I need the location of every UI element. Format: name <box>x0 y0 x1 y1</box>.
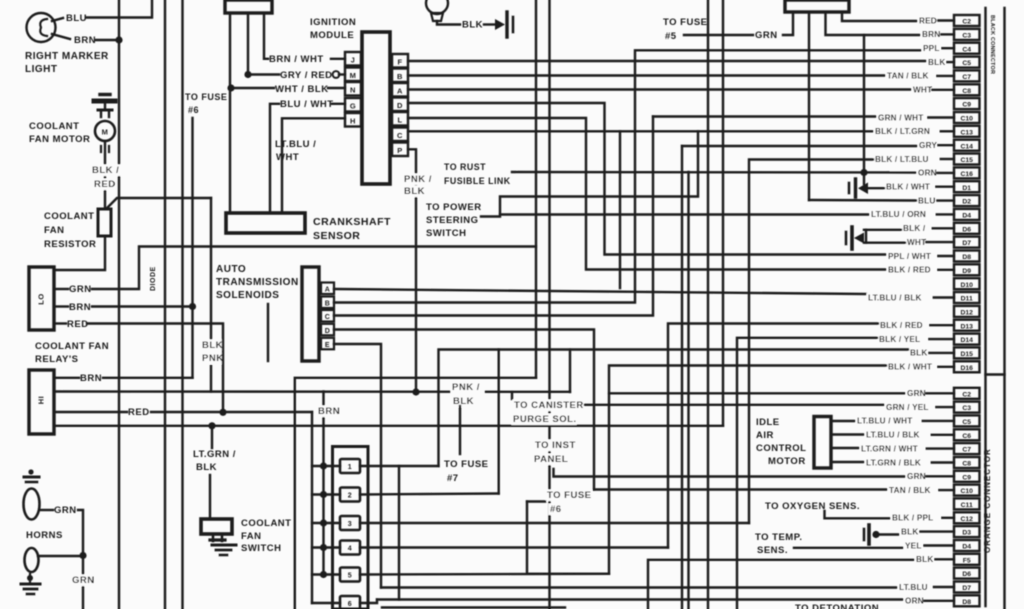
wire horn1 to junction <box>78 510 83 556</box>
pin 6 connector <box>340 596 360 609</box>
wire run GRN C2org <box>609 392 905 394</box>
svg-text:CONTROL: CONTROL <box>756 443 806 454</box>
svg-text:LT.BLU / WHT: LT.BLU / WHT <box>857 417 912 426</box>
relay HI box <box>29 370 54 434</box>
wire GRY/RED <box>252 73 279 75</box>
label IDLE AIR CONTROL MOTOR <box>756 417 806 467</box>
wire to fan switch <box>209 475 211 519</box>
svg-text:BLACK CONNECTOR: BLACK CONNECTOR <box>989 15 995 74</box>
svg-text:D16: D16 <box>960 365 973 372</box>
svg-text:COOLANT: COOLANT <box>29 121 79 132</box>
svg-text:D7: D7 <box>962 240 971 247</box>
junction GRY/RED <box>244 71 251 78</box>
wire BRN to fuse6 bus <box>92 305 193 307</box>
svg-text:BLU: BLU <box>918 196 935 205</box>
svg-text:C3: C3 <box>962 33 971 40</box>
label COOLANT FAN MOTOR <box>29 121 90 145</box>
pin P ignition <box>392 143 408 157</box>
pin D solenoid <box>321 324 334 336</box>
svg-text:6: 6 <box>348 601 352 608</box>
svg-text:C2: C2 <box>962 19 971 26</box>
terminal D3 orange connector BLK <box>900 526 980 537</box>
wire LT.GRN/BLK tap <box>211 426 213 448</box>
terminal C7 black connector TAN / BLK <box>886 70 980 81</box>
svg-text:TO FUSE: TO FUSE <box>185 92 227 102</box>
wire pin2 left <box>312 493 340 495</box>
pin L ignition <box>392 112 408 126</box>
svg-text:LT.GRN /: LT.GRN / <box>193 449 236 460</box>
pin B solenoid <box>321 297 334 309</box>
junction RED riser <box>219 409 226 416</box>
svg-text:PNK /: PNK / <box>452 382 480 393</box>
wire run L to D9 <box>408 118 887 270</box>
wire fusible link run <box>512 171 917 174</box>
terminal D7 orange connector LT.BLU <box>898 582 980 593</box>
svg-text:D13: D13 <box>960 323 973 330</box>
terminal C5 orange connector LT.BLU / WHT <box>856 415 980 426</box>
label TO FUSE #6 <box>185 92 227 115</box>
svg-text:GRY / RED: GRY / RED <box>280 70 333 81</box>
wire run C15 pin3 <box>749 160 873 524</box>
terminal C9 orange connector GRN <box>906 471 980 482</box>
wire stub BRN/WHT <box>264 13 268 59</box>
junction fuse6-BRN <box>189 303 196 310</box>
terminal D12 black connector <box>954 306 980 317</box>
wire to pin G <box>332 103 345 105</box>
terminal C7 orange connector LT.GRN / WHT <box>860 443 980 454</box>
lamp right marker light <box>27 13 71 42</box>
svg-text:F: F <box>397 58 402 67</box>
terminal C14 black connector GRY <box>918 140 980 151</box>
wire run D16 fuse6 <box>527 366 886 574</box>
svg-text:FUSIBLE LINK: FUSIBLE LINK <box>444 176 511 186</box>
junction ORN riser <box>860 169 867 176</box>
pin 5 connector <box>340 568 360 582</box>
label TO FUSE #6 (lower) <box>546 490 592 516</box>
svg-text:RIGHT MARKER: RIGHT MARKER <box>25 51 109 62</box>
svg-text:BLK / RED: BLK / RED <box>880 321 923 330</box>
label TO DETONATION <box>795 603 879 609</box>
terminal D10 black connector <box>954 278 980 289</box>
wire riser x399 <box>398 466 400 600</box>
svg-text:RED: RED <box>919 16 937 25</box>
svg-text:DIODE: DIODE <box>150 266 157 291</box>
pin C solenoid <box>321 310 334 322</box>
relay LO box <box>29 267 54 330</box>
svg-text:MOTOR: MOTOR <box>768 456 806 467</box>
svg-text:AUTO: AUTO <box>216 264 246 275</box>
svg-text:ORN: ORN <box>918 169 937 178</box>
wire run GRY to C14 <box>682 145 917 147</box>
label RED (LO) <box>67 319 89 330</box>
wire stub GRY/RED <box>247 13 249 75</box>
svg-text:G: G <box>350 102 356 111</box>
horn upper <box>24 469 40 519</box>
svg-text:B: B <box>397 72 403 81</box>
wire pin3 right <box>360 522 749 524</box>
svg-text:GRN: GRN <box>69 284 92 295</box>
wire run ORN D8org <box>377 598 903 600</box>
terminal C10 orange connector TAN / BLK <box>888 485 980 496</box>
label HORNS <box>26 530 63 541</box>
svg-text:2: 2 <box>348 493 352 500</box>
svg-text:ORN: ORN <box>905 597 924 606</box>
svg-text:BLU / WHT: BLU / WHT <box>280 99 334 110</box>
wire vertical bus x708 <box>707 0 709 609</box>
svg-text:TO CANISTER: TO CANISTER <box>514 400 584 411</box>
wire vertical bus x182 <box>181 0 183 609</box>
svg-text:D10: D10 <box>960 282 973 289</box>
pin N ignition <box>345 82 361 96</box>
pin A ignition <box>392 83 408 97</box>
wire IAC pin3 <box>831 447 860 449</box>
pin B ignition <box>392 69 408 83</box>
pin 1 connector <box>340 459 360 473</box>
terminal D16 black connector BLK / WHT <box>887 361 980 372</box>
svg-text:TO FUSE: TO FUSE <box>444 459 489 470</box>
svg-text:HORNS: HORNS <box>26 530 63 541</box>
wire pin1 right <box>360 465 439 467</box>
wire ORN riser <box>863 35 865 184</box>
label GRY/RED <box>280 70 333 81</box>
svg-text:BLK / PPL: BLK / PPL <box>892 514 933 523</box>
svg-text:C2: C2 <box>962 391 971 398</box>
terminal D4 orange connector YEL <box>904 540 980 551</box>
svg-text:D7: D7 <box>962 585 971 592</box>
label BRN <box>74 35 96 46</box>
svg-text:WHT / BLK: WHT / BLK <box>275 84 329 95</box>
svg-text:C6: C6 <box>962 433 971 440</box>
svg-text:BLK: BLK <box>453 396 474 407</box>
wire pin3 left <box>312 522 340 524</box>
wire horns down <box>82 556 84 609</box>
wire BLU to top <box>86 0 152 18</box>
wire run GRN/WHT C10 <box>653 115 876 117</box>
wire run A to C8 <box>408 88 912 90</box>
label GRN (horn bus) <box>71 575 95 587</box>
wire run F to C5 <box>408 60 927 62</box>
svg-text:FAN: FAN <box>241 531 262 542</box>
svg-text:PANEL: PANEL <box>534 454 568 465</box>
svg-text:C4: C4 <box>962 46 971 53</box>
label GRN (horn) <box>54 505 77 516</box>
svg-text:C8: C8 <box>962 461 971 468</box>
svg-text:4: 4 <box>348 546 352 553</box>
label AUTO TRANSMISSION SOLENOIDS <box>216 264 299 301</box>
ground fan switch <box>212 545 236 555</box>
junction pin5 <box>320 571 327 578</box>
svg-text:#5: #5 <box>665 31 677 42</box>
terminal D1 black connector BLK / WHT <box>885 181 980 192</box>
svg-text:GRN / WHT: GRN / WHT <box>878 113 923 122</box>
wire sensor BLK <box>437 21 460 25</box>
connector box top-right <box>785 0 849 12</box>
wire pin5 left <box>312 573 340 575</box>
svg-text:C8: C8 <box>962 88 971 95</box>
svg-text:RED: RED <box>128 407 150 418</box>
connector box top-left <box>225 0 272 13</box>
terminal D14 black connector BLK / YEL <box>878 334 980 345</box>
svg-text:BLK / LT.BLU: BLK / LT.BLU <box>875 155 929 164</box>
label TO TEMP. SENS. <box>755 532 802 556</box>
svg-text:F5: F5 <box>963 557 971 564</box>
wire HI row4 long <box>56 425 723 427</box>
svg-text:C7: C7 <box>962 74 971 81</box>
wire riser x620 <box>619 131 621 288</box>
svg-text:D8: D8 <box>962 254 971 261</box>
svg-text:BLK: BLK <box>202 340 223 351</box>
svg-text:TO FUSE: TO FUSE <box>547 490 592 501</box>
svg-text:BLK: BLK <box>462 20 483 31</box>
wire stub RED <box>842 12 917 21</box>
svg-text:C5: C5 <box>962 60 971 67</box>
svg-text:PURGE SOL.: PURGE SOL. <box>513 414 577 425</box>
label ORANGE CONNECTOR <box>983 448 992 553</box>
svg-text:SOLENOIDS: SOLENOIDS <box>216 290 279 301</box>
wire solenoid E <box>334 344 381 588</box>
svg-text:BLK: BLK <box>916 555 933 564</box>
wire pin4 right <box>360 546 668 548</box>
junction marker-BRN <box>115 36 122 43</box>
svg-text:TO DETONATION: TO DETONATION <box>795 603 879 609</box>
junction pin3 <box>320 519 327 526</box>
terminal ring GRY/RED <box>333 71 340 78</box>
wire LO BRN <box>56 305 68 307</box>
svg-text:BLK / YEL: BLK / YEL <box>879 335 920 344</box>
svg-text:A: A <box>325 287 331 294</box>
svg-text:RED: RED <box>94 179 116 190</box>
wire inst panel run <box>554 469 907 477</box>
wire pin H down <box>282 118 345 213</box>
wire resistor top to right <box>107 198 211 208</box>
svg-text:D15: D15 <box>960 351 973 358</box>
pin D ignition <box>392 98 408 112</box>
label BLK PNK <box>201 340 224 365</box>
sensor top center <box>426 0 448 21</box>
pin M ignition <box>345 68 361 82</box>
terminal D13 black connector BLK / RED <box>879 320 980 331</box>
svg-text:D6: D6 <box>962 571 971 578</box>
terminal D4 black connector LT.BLU / ORN <box>870 209 980 220</box>
wire run B to C7 <box>408 74 886 76</box>
pin G ignition <box>345 98 361 112</box>
terminal D2 black connector BLU <box>917 195 980 206</box>
wire pin4 left <box>312 546 340 548</box>
wire motor lead <box>101 141 109 209</box>
wire riser x570 <box>569 350 571 393</box>
svg-text:D: D <box>325 328 331 335</box>
wire HI BRN <box>56 377 79 379</box>
pin 2 connector <box>340 488 360 502</box>
junction PNK/BLK <box>412 388 419 395</box>
wire pin5 right <box>360 573 609 576</box>
wire to pin M <box>339 73 345 75</box>
wire stub BRN <box>826 12 921 35</box>
label LO <box>37 293 46 304</box>
wire solenoid C <box>334 117 653 316</box>
svg-text:C3: C3 <box>962 405 971 412</box>
resistor coolant fan <box>98 209 111 236</box>
svg-text:BLK: BLK <box>404 186 425 197</box>
wire temp sens run <box>794 547 903 549</box>
pin F ignition <box>392 54 408 68</box>
svg-text:IDLE: IDLE <box>756 417 780 428</box>
wire IAC pin2 <box>831 433 864 435</box>
wire vertical bus x536 <box>535 0 537 378</box>
svg-text:BLK / LT.GRN: BLK / LT.GRN <box>875 127 930 136</box>
idle air motor body <box>814 417 831 469</box>
svg-text:BRN: BRN <box>69 302 91 313</box>
svg-text:D14: D14 <box>960 337 973 344</box>
svg-text:M: M <box>102 128 109 137</box>
svg-text:D: D <box>397 101 403 110</box>
label GRN (LO) <box>69 284 92 295</box>
svg-text:PNK /: PNK / <box>404 174 432 185</box>
wire resistor bottom <box>55 236 105 270</box>
svg-text:BLK / RED: BLK / RED <box>888 266 931 275</box>
label IGNITION MODULE <box>310 17 356 41</box>
svg-text:STEERING: STEERING <box>426 215 479 226</box>
terminal C12 orange connector BLK / PPL <box>891 512 980 523</box>
svg-text:WHT: WHT <box>913 86 932 95</box>
wire riser x498 <box>498 350 500 494</box>
terminal C13 black connector BLK / LT.GRN <box>874 126 980 137</box>
wire BRN up to junction <box>103 377 193 379</box>
svg-text:D6: D6 <box>962 226 971 233</box>
wire run C to C13 <box>408 130 874 132</box>
svg-text:C16: C16 <box>960 171 973 178</box>
label LT.BLU/WHT <box>275 139 316 163</box>
svg-text:BLK /: BLK / <box>92 165 119 176</box>
svg-text:B: B <box>325 301 331 308</box>
label BLACK CONNECTOR <box>989 15 995 74</box>
pin C ignition <box>392 128 408 142</box>
wire run LT.BLU D7org <box>381 586 897 588</box>
label HI <box>37 396 46 405</box>
numbered connector body <box>333 447 369 609</box>
svg-text:WHT: WHT <box>907 238 926 247</box>
svg-text:TO TEMP.: TO TEMP. <box>755 532 802 543</box>
svg-text:TAN / BLK: TAN / BLK <box>887 72 929 81</box>
svg-text:LT.BLU: LT.BLU <box>899 583 928 592</box>
wire bus x323 <box>322 392 324 575</box>
coolant fan switch <box>201 519 232 541</box>
wire bottom segment <box>382 606 565 608</box>
junction pin2 <box>320 491 327 498</box>
wire stub N <box>229 13 231 213</box>
svg-text:GRN: GRN <box>907 389 926 398</box>
wire pin P <box>408 149 416 392</box>
wire BRN to bus <box>96 39 119 41</box>
wire run D13 BLK/RED <box>668 324 878 548</box>
ground top sensor <box>495 12 513 37</box>
svg-text:GRN / YEL: GRN / YEL <box>886 403 929 412</box>
svg-text:C5: C5 <box>962 419 971 426</box>
junction pin1 <box>320 462 327 469</box>
label RIGHT MARKER LIGHT <box>25 51 109 75</box>
wire vertical bus x688 <box>687 172 689 609</box>
label TO POWER STEERING SWITCH <box>426 202 482 239</box>
svg-text:C: C <box>325 314 331 321</box>
label BRN (HI) <box>80 373 102 384</box>
terminal D8 black connector PPL / WHT <box>887 251 980 262</box>
wire solenoid D <box>334 330 594 490</box>
wire pin2 right <box>360 494 499 495</box>
label PNK/BLK (P pin) <box>403 174 437 198</box>
wire RED to connector <box>151 411 312 413</box>
label COOLANT FAN SWITCH <box>241 518 291 554</box>
label COOLANT FAN RESISTOR <box>44 211 96 250</box>
label PNK/BLK (P) <box>451 382 485 408</box>
wire GRN to riser <box>92 247 536 290</box>
terminal C2 black connector RED <box>918 15 980 26</box>
svg-text:BLK / WHT: BLK / WHT <box>888 363 932 372</box>
svg-text:3: 3 <box>348 521 352 528</box>
wire to pin J <box>331 58 345 60</box>
svg-text:ORANGE CONNECTOR: ORANGE CONNECTOR <box>983 448 992 553</box>
svg-text:D4: D4 <box>962 544 971 551</box>
terminal C4 black connector PPL <box>922 43 980 54</box>
label TO RUST FUSIBLE LINK <box>444 162 511 186</box>
svg-text:C14: C14 <box>960 143 973 150</box>
svg-text:LIGHT: LIGHT <box>25 64 58 75</box>
wire horn1 GRN <box>40 509 53 511</box>
svg-text:5: 5 <box>348 573 352 580</box>
svg-text:#6: #6 <box>550 504 562 515</box>
wire IAC pin4 <box>831 461 864 463</box>
terminal D6 black connector BLK / <box>902 223 980 234</box>
svg-text:TO POWER: TO POWER <box>426 202 482 213</box>
svg-text:BRN: BRN <box>74 35 96 46</box>
wire HI row2 long <box>56 390 570 393</box>
terminal D6 orange connector <box>954 568 980 579</box>
wire riser x648 <box>648 560 914 609</box>
terminal C11 orange connector <box>954 498 980 509</box>
wire solenoid B <box>334 50 921 302</box>
wire run D14 BLK/YEL <box>737 338 877 609</box>
svg-text:BRN / WHT: BRN / WHT <box>269 54 324 65</box>
svg-text:C: C <box>397 131 403 140</box>
label LT.GRN/BLK <box>193 449 236 473</box>
svg-text:PNK: PNK <box>202 353 224 364</box>
svg-text:BLK: BLK <box>928 58 945 67</box>
svg-text:PPL: PPL <box>923 44 940 53</box>
svg-text:COOLANT FAN: COOLANT FAN <box>35 341 109 352</box>
svg-text:GRN: GRN <box>54 505 77 516</box>
svg-text:PPL / WHT: PPL / WHT <box>888 252 931 261</box>
wire stub BLU riser <box>808 12 810 200</box>
wire pin6 left <box>312 602 340 604</box>
svg-text:#7: #7 <box>447 473 459 484</box>
junction LT.GRN tap <box>208 422 215 429</box>
wire oxygen tap <box>825 511 891 518</box>
terminal C8 orange connector LT.GRN / BLK <box>865 457 980 468</box>
svg-text:C10: C10 <box>960 116 973 123</box>
svg-text:D3: D3 <box>962 530 971 537</box>
svg-text:FAN MOTOR: FAN MOTOR <box>29 134 90 145</box>
ground horn <box>21 574 40 594</box>
horn lower <box>25 548 39 572</box>
svg-text:GRN: GRN <box>907 472 926 481</box>
wire vertical bus x549 <box>548 0 550 609</box>
wire to pin N <box>328 87 345 89</box>
svg-text:FAN: FAN <box>44 225 65 236</box>
wire vertical bus x723 <box>722 0 724 426</box>
label BRN (conn) <box>317 406 341 418</box>
svg-text:MODULE: MODULE <box>310 30 354 41</box>
pin E solenoid <box>321 338 334 350</box>
svg-text:SWITCH: SWITCH <box>241 543 281 554</box>
